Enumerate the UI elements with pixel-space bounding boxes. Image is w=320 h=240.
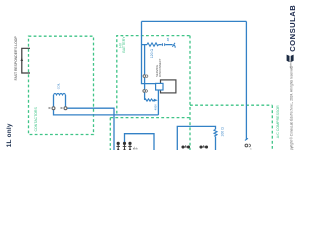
contact pair 2 [200,145,208,148]
arrowhead on loop [21,57,24,61]
wire coil left leg + bus [54,95,159,115]
svg-text:100 Ω: 100 Ω [220,127,224,137]
resistor 100 ohm [214,129,217,136]
svg-text:400V: 400V [153,104,157,110]
svg-text:B-: B- [136,147,139,150]
cell symbol 3 [128,142,132,150]
svg-text:COIL: COIL [57,83,61,90]
svg-text:A/C COMPRESSOR: A/C COMPRESSOR [276,105,280,138]
svg-text:1L only: 1L only [6,123,13,147]
wire CAN stub branch [142,44,173,46]
svg-text:Copyright © ConsuLab ÉduTech i: Copyright © ConsuLab ÉduTech inc., 2024.… [288,66,293,150]
svg-text:4B: 4B [166,38,170,42]
wire HV+ top rail [142,20,247,22]
enclosure divider vertical (green dashed) [189,36,191,150]
contactor terminal right [64,107,67,110]
battery pack box (blue) [125,134,155,150]
svg-text:DISCONNECT: DISCONNECT [158,58,162,77]
compressor box (blue) with resistor [177,126,215,150]
enclosure CONTACTORS box (green dashed) [29,36,94,134]
wire end slash [172,43,175,48]
svg-text:FAST RESPONDER'S LOOP: FAST RESPONDER'S LOOP [14,36,18,81]
wire right rail to A/C [245,21,247,139]
contact pair 1 [182,145,190,148]
svg-text:CONTACTORS: CONTACTORS [34,107,38,132]
contactor terminal left [52,107,55,110]
wire end slash A/C [245,138,248,140]
connector pair on stub [162,43,163,46]
wire left rail to service disconnect [142,21,156,83]
wire disconnect to bus [157,90,159,115]
enclosure A/C COMPRESSOR box (green dashed) [190,105,272,150]
logo chevrons [287,55,290,63]
connector A/C [245,144,248,147]
svg-text:BATTERY: BATTERY [122,36,126,53]
svg-text:3: 3 [250,148,252,150]
connector pin 2 on drop wire [143,90,146,93]
connector pin on drop wire [143,75,146,78]
service disconnect body [161,80,176,93]
loop symbol (fast responder's loop) [22,48,30,73]
enclosure HV BATTERY box (green dashed) [110,36,190,118]
wire battery positive drop [144,45,146,100]
enclosure lower green box left edge [109,118,111,150]
cell symbol 2 [123,142,127,150]
svg-text:120 Ω: 120 Ω [150,48,154,58]
wire coil right leg + contact out [66,95,115,150]
cell symbol 1 [116,142,120,150]
service disconnect plug (blue) [156,83,163,90]
resistor 120 ohm [147,43,159,46]
relay coil [54,93,66,94]
svg-text:CONSULAB: CONSULAB [288,5,297,52]
resistor squiggle feed with arrow [145,99,154,101]
